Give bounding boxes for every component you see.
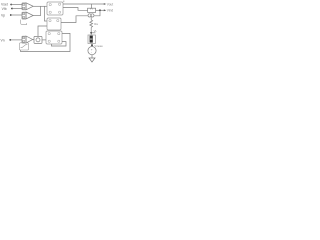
svg-text:Vind: Vind <box>107 9 114 13</box>
wire lamp to Vnd rail <box>94 10 100 16</box>
wire box1 to pot jog <box>63 8 88 11</box>
block box2 <box>47 18 61 30</box>
oscillator block U4 <box>34 36 42 43</box>
svg-text:VL: VL <box>94 29 98 33</box>
svg-text:Vfb: Vfb <box>2 7 7 11</box>
wire box3 bottom stub loop <box>51 42 66 46</box>
ground <box>89 58 95 62</box>
potentiometer RP <box>88 8 96 12</box>
wire U3 output <box>33 39 34 41</box>
node VL junction dot <box>90 32 92 34</box>
wire U4 to box3 <box>42 39 46 41</box>
node Vfb junction dot <box>9 39 11 41</box>
wire box2 to lamp jog <box>61 16 88 23</box>
load box RL <box>88 35 95 44</box>
lamp pair B1 <box>88 14 91 17</box>
wire Ra to load <box>90 27 92 35</box>
svg-text:Ra: Ra <box>94 22 98 26</box>
op-amp U1 input block <box>22 3 26 10</box>
wire feedback loop lower <box>21 33 71 51</box>
arrow Vout <box>104 3 106 5</box>
op-amp U2 <box>26 12 33 19</box>
box3 port circles <box>48 33 50 35</box>
wire U1 output <box>33 5 47 7</box>
wire source to ground <box>91 55 93 58</box>
node Vnd junction dot <box>99 9 101 11</box>
wire load to meter <box>91 44 93 47</box>
label speck above box1 <box>63 1 64 2</box>
arrow Vnd <box>104 9 106 11</box>
op-amp U2 input block <box>22 12 26 19</box>
resistor Ra <box>90 20 93 28</box>
svg-text:Vout: Vout <box>107 2 113 6</box>
wire Vset to U1 <box>11 4 22 6</box>
wire lamp down to Ra <box>90 17 92 20</box>
wire Vb to U1 <box>12 8 22 10</box>
wire top line to Vout <box>63 3 104 5</box>
wire node A vertical x40.5 to U2 output <box>40 6 42 15</box>
wire VL stub <box>91 32 95 34</box>
wire Vp to U2 <box>11 14 22 16</box>
wire Vfb to comparator <box>10 39 22 41</box>
load element dark bar <box>90 36 93 43</box>
node Vp junction dot <box>10 14 12 16</box>
box2 port circles <box>49 20 51 22</box>
svg-text:Vmeas: Vmeas <box>94 44 103 48</box>
wire U2 output to box1 <box>33 15 41 17</box>
node Vb junction dot <box>11 8 13 10</box>
voltage source V1 <box>88 47 96 55</box>
relay block hysteresis icon <box>20 43 29 50</box>
potentiometer RP wiper <box>90 4 92 8</box>
op-amp U1 <box>26 3 33 10</box>
block box3 <box>46 31 62 44</box>
block box1 <box>47 2 63 15</box>
wire node A vertical x44.5 to box2 <box>45 6 48 21</box>
svg-text:Vn: Vn <box>1 38 5 42</box>
wire box2 left pin down to comparator row <box>38 26 47 37</box>
box1 port circles <box>49 4 51 6</box>
node Vset junction dot <box>10 4 12 6</box>
comparator U3 <box>26 36 33 43</box>
wire pot to Vnd <box>96 9 105 11</box>
svg-text:Vp: Vp <box>1 14 5 18</box>
comparator U3 input block <box>22 36 26 43</box>
wire U2 feedback bracket <box>21 20 27 25</box>
svg-text:-: - <box>91 51 92 55</box>
node Vmeas junction dot <box>91 44 93 46</box>
